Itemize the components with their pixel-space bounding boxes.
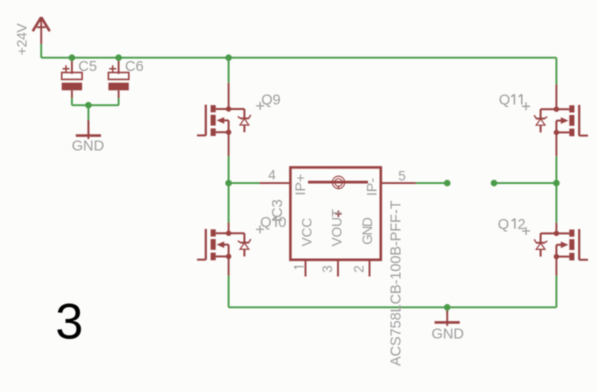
svg-text:IP-: IP-: [365, 178, 381, 196]
svg-text:GND: GND: [72, 139, 104, 155]
svg-text:4: 4: [268, 167, 276, 182]
svg-text:C6: C6: [125, 59, 144, 75]
svg-text:3: 3: [55, 294, 83, 350]
svg-text:IC3: IC3: [270, 199, 286, 222]
svg-text:IP+: IP+: [293, 174, 309, 196]
svg-text:Q: Q: [499, 93, 510, 109]
svg-text:VCC: VCC: [299, 218, 314, 247]
svg-text:Q9: Q9: [261, 92, 280, 108]
svg-text:GND: GND: [432, 326, 464, 342]
svg-text:VOUT: VOUT: [330, 209, 345, 247]
svg-text:2: 2: [352, 265, 367, 273]
svg-text:ACS758LCB-100B-PFF-T: ACS758LCB-100B-PFF-T: [388, 200, 404, 366]
svg-text:C5: C5: [78, 59, 97, 75]
svg-text:GND: GND: [360, 217, 375, 245]
svg-text:5: 5: [398, 169, 406, 184]
svg-text:Q: Q: [498, 217, 509, 233]
svg-text:+24V: +24V: [14, 23, 30, 56]
svg-text:3: 3: [320, 265, 335, 273]
